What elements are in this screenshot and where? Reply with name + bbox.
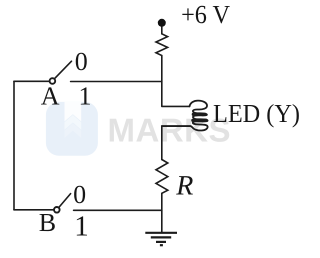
svg-text:0: 0 <box>73 180 86 209</box>
svg-text:LED (Y): LED (Y) <box>213 99 300 128</box>
svg-text:B: B <box>39 208 56 237</box>
svg-text:1: 1 <box>74 211 89 243</box>
svg-text:0: 0 <box>75 47 88 76</box>
svg-text:R: R <box>175 171 193 202</box>
svg-text:A: A <box>41 81 60 110</box>
svg-text:1: 1 <box>79 82 92 111</box>
svg-text:+6 V: +6 V <box>181 0 230 29</box>
